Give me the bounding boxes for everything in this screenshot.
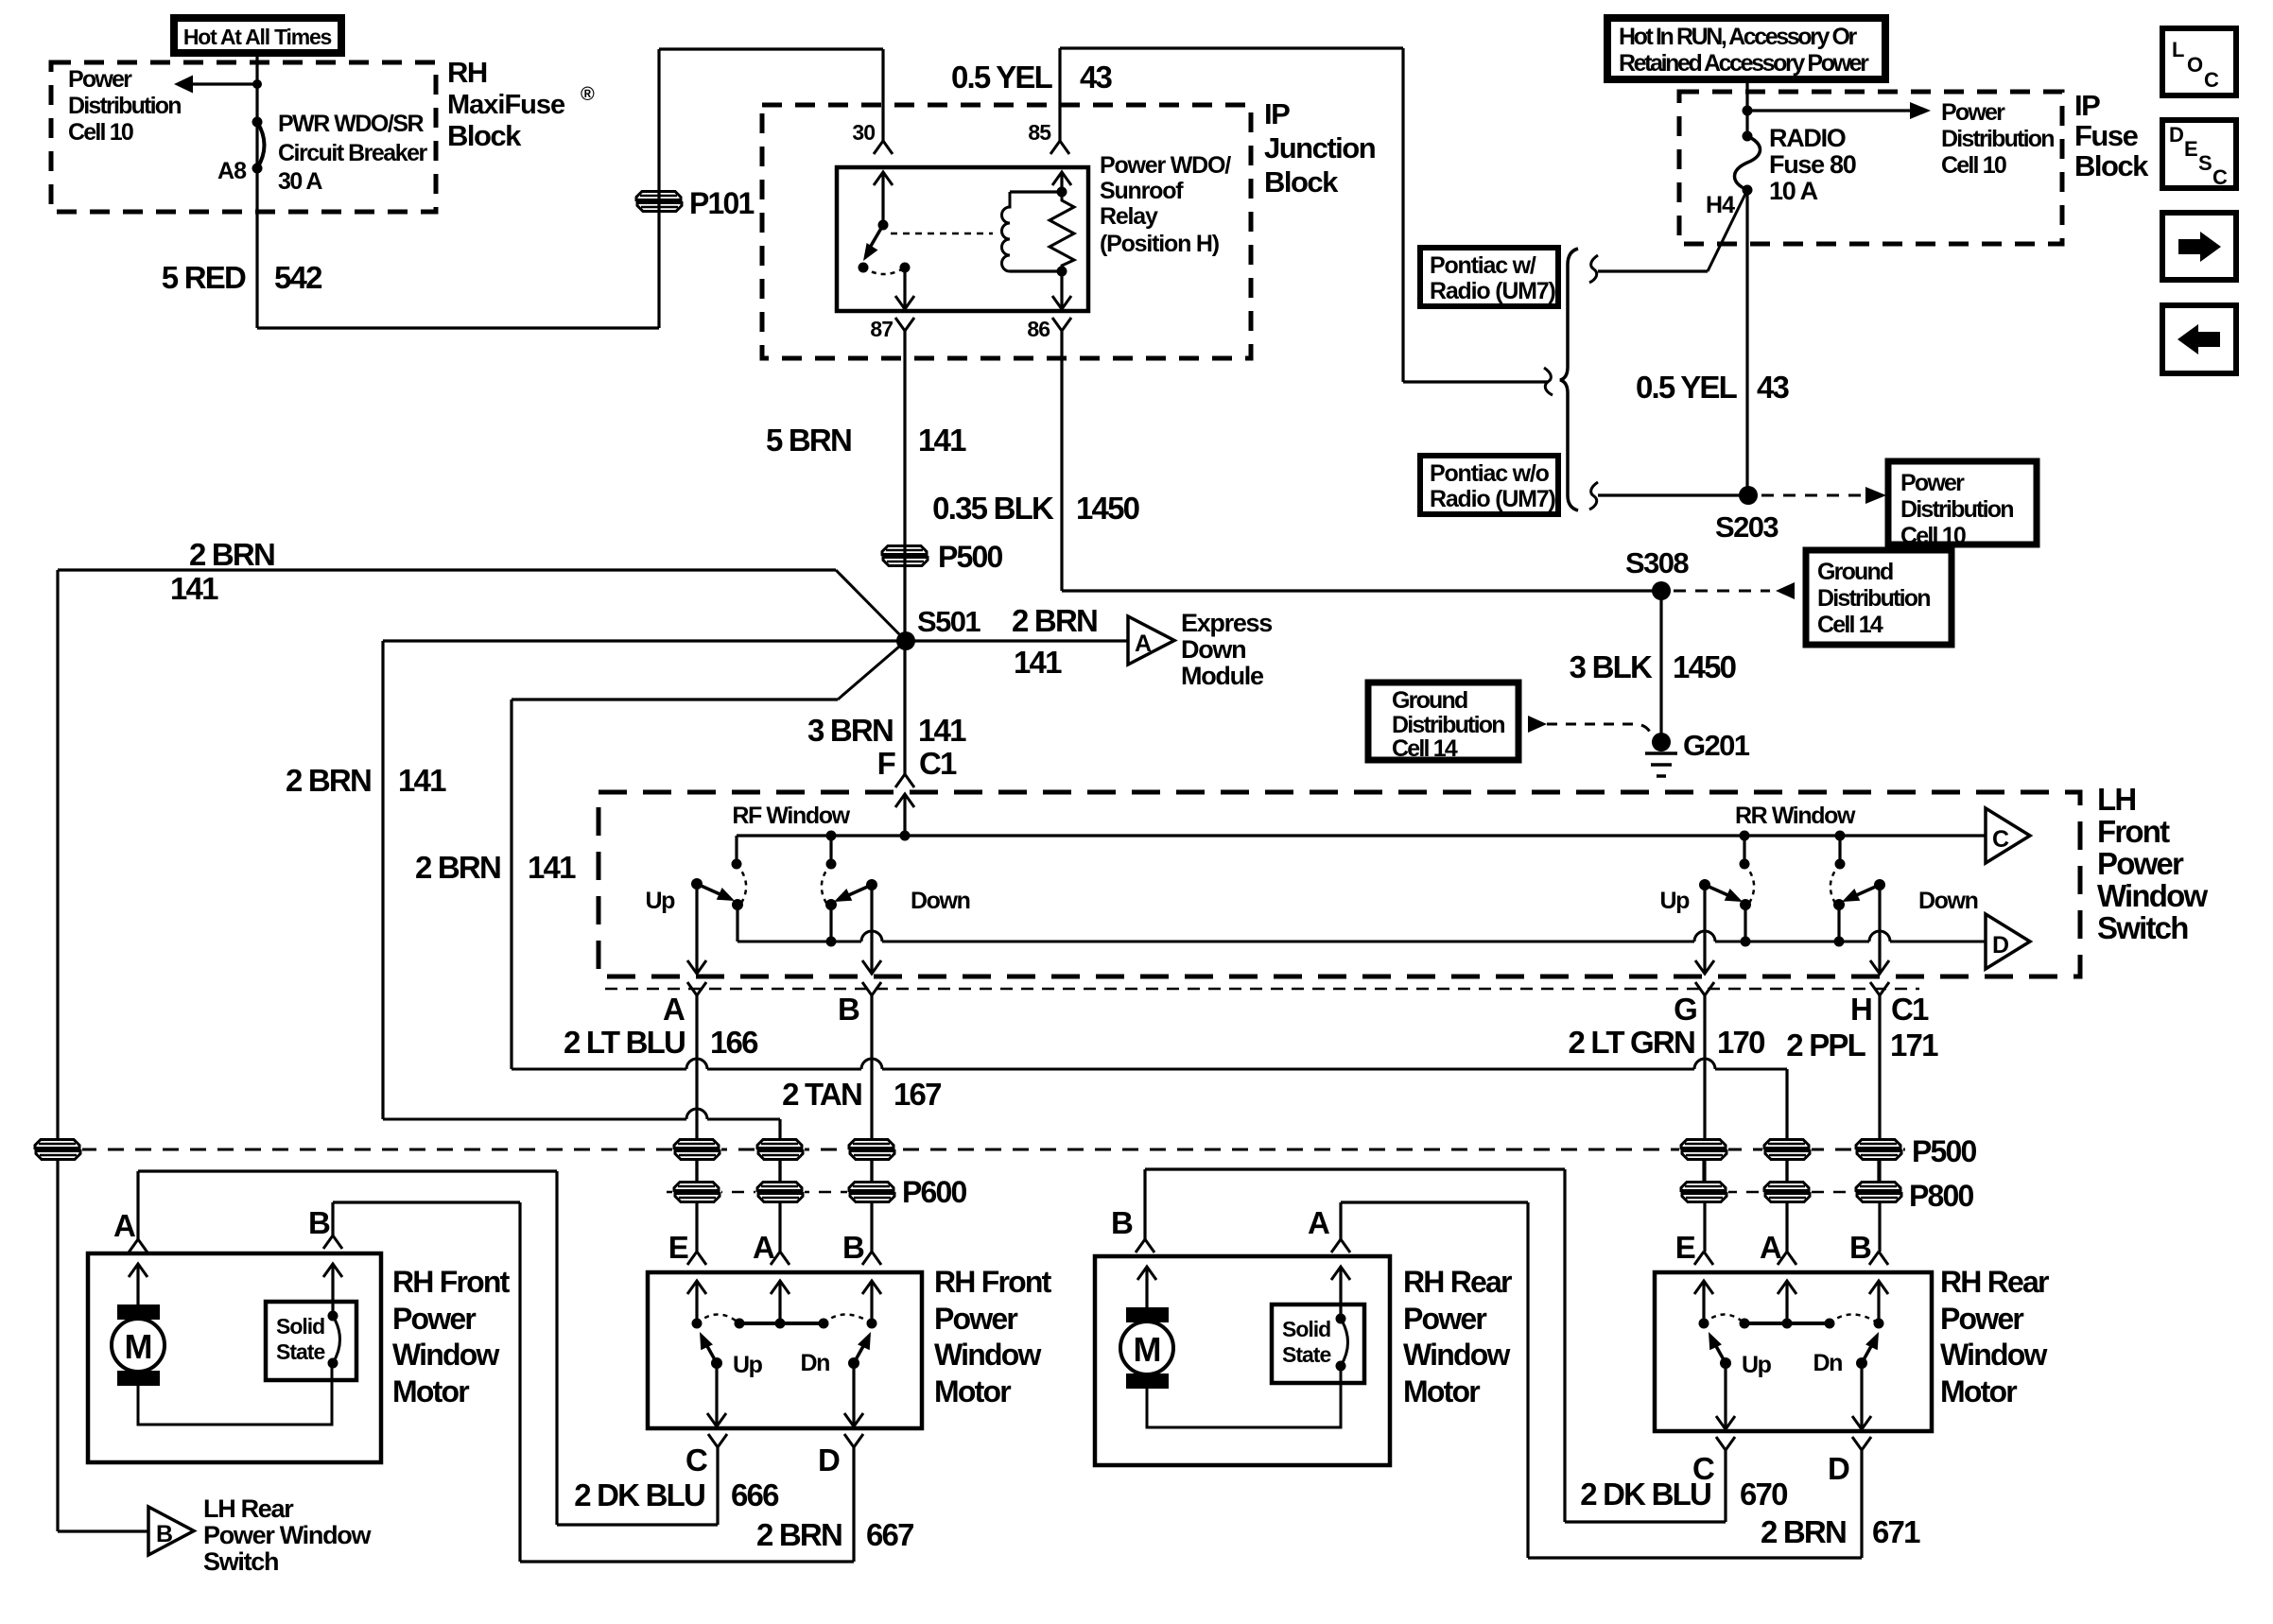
svg-text:Distribution: Distribution bbox=[1900, 496, 2013, 523]
svg-text:10 A: 10 A bbox=[1769, 177, 1818, 205]
svg-text:P600: P600 bbox=[902, 1175, 967, 1209]
svg-text:Distribution: Distribution bbox=[68, 93, 181, 119]
svg-text:170: 170 bbox=[1717, 1025, 1764, 1060]
svg-text:Window: Window bbox=[934, 1338, 1041, 1372]
svg-text:A: A bbox=[1135, 631, 1152, 657]
svg-text:RH Rear: RH Rear bbox=[1403, 1265, 1512, 1299]
svg-text:1450: 1450 bbox=[1076, 491, 1139, 526]
svg-text:D: D bbox=[1992, 932, 2008, 959]
svg-text:E: E bbox=[2184, 137, 2198, 161]
svg-text:M: M bbox=[125, 1327, 152, 1366]
svg-text:2 PPL: 2 PPL bbox=[1786, 1028, 1865, 1063]
svg-text:S: S bbox=[2198, 151, 2212, 175]
svg-text:Down: Down bbox=[911, 888, 970, 914]
svg-text:Block: Block bbox=[1264, 165, 1339, 199]
svg-text:Junction: Junction bbox=[1264, 131, 1376, 164]
svg-text:P500: P500 bbox=[1912, 1134, 1977, 1168]
svg-text:G201: G201 bbox=[1683, 729, 1750, 762]
svg-text:Module: Module bbox=[1181, 662, 1264, 690]
svg-text:86: 86 bbox=[1027, 317, 1050, 341]
svg-text:Down: Down bbox=[1181, 635, 1245, 664]
svg-text:Cell 14: Cell 14 bbox=[1817, 612, 1883, 638]
svg-text:Power: Power bbox=[934, 1302, 1017, 1336]
svg-text:State: State bbox=[1282, 1342, 1330, 1367]
svg-text:Power Window: Power Window bbox=[203, 1521, 372, 1549]
svg-text:Solid: Solid bbox=[1282, 1317, 1330, 1341]
svg-text:0.35 BLK: 0.35 BLK bbox=[932, 491, 1054, 526]
svg-text:3 BLK: 3 BLK bbox=[1570, 649, 1653, 684]
svg-text:Pontiac w/o: Pontiac w/o bbox=[1430, 460, 1550, 487]
svg-text:Express: Express bbox=[1181, 609, 1272, 637]
svg-text:B: B bbox=[1111, 1205, 1133, 1240]
svg-text:Switch: Switch bbox=[2097, 910, 2188, 945]
svg-text:2 BRN: 2 BRN bbox=[286, 763, 371, 798]
svg-text:30: 30 bbox=[852, 120, 875, 145]
svg-text:30 A: 30 A bbox=[278, 168, 322, 195]
svg-text:Pontiac w/: Pontiac w/ bbox=[1430, 252, 1536, 279]
svg-text:C: C bbox=[2204, 68, 2219, 92]
svg-text:A: A bbox=[663, 992, 685, 1027]
svg-text:Power: Power bbox=[68, 66, 132, 93]
svg-text:C1: C1 bbox=[919, 746, 957, 781]
svg-text:Block: Block bbox=[2074, 149, 2149, 182]
svg-text:Distribution: Distribution bbox=[1392, 712, 1504, 738]
svg-text:141: 141 bbox=[398, 763, 446, 798]
svg-text:IP: IP bbox=[2074, 89, 2100, 122]
svg-text:C1: C1 bbox=[1891, 992, 1929, 1027]
svg-text:LH Rear: LH Rear bbox=[203, 1494, 294, 1523]
svg-text:RH Front: RH Front bbox=[934, 1265, 1052, 1299]
svg-text:141: 141 bbox=[918, 423, 966, 458]
svg-text:B: B bbox=[1849, 1230, 1871, 1265]
svg-text:Cell 10: Cell 10 bbox=[1900, 523, 1966, 549]
svg-text:Radio (UM7): Radio (UM7) bbox=[1430, 278, 1556, 304]
svg-text:S501: S501 bbox=[917, 605, 980, 638]
svg-text:2 TAN: 2 TAN bbox=[782, 1077, 861, 1112]
svg-text:H: H bbox=[1850, 992, 1871, 1027]
svg-text:Front: Front bbox=[2097, 814, 2170, 849]
svg-text:State: State bbox=[276, 1339, 324, 1364]
svg-text:2 BRN: 2 BRN bbox=[756, 1517, 842, 1552]
svg-text:E: E bbox=[1675, 1230, 1695, 1265]
svg-text:A8: A8 bbox=[217, 158, 247, 184]
svg-text:Hot In RUN, Accessory Or: Hot In RUN, Accessory Or bbox=[1619, 24, 1858, 50]
svg-text:Retained Accessory Power: Retained Accessory Power bbox=[1619, 50, 1869, 77]
svg-text:S308: S308 bbox=[1625, 546, 1689, 579]
svg-text:L: L bbox=[2172, 38, 2184, 61]
svg-text:Cell 14: Cell 14 bbox=[1392, 735, 1458, 762]
svg-text:141: 141 bbox=[170, 571, 218, 606]
svg-text:670: 670 bbox=[1740, 1477, 1787, 1512]
svg-text:Hot At All Times: Hot At All Times bbox=[183, 25, 332, 49]
svg-text:85: 85 bbox=[1028, 120, 1051, 145]
svg-text:Cell 10: Cell 10 bbox=[1941, 152, 2006, 179]
svg-text:Sunroof: Sunroof bbox=[1100, 178, 1184, 204]
svg-text:MaxiFuse: MaxiFuse bbox=[447, 90, 565, 120]
svg-text:D: D bbox=[1828, 1451, 1849, 1486]
svg-text:(Position H): (Position H) bbox=[1100, 231, 1220, 257]
svg-text:171: 171 bbox=[1890, 1028, 1938, 1063]
svg-text:Radio (UM7): Radio (UM7) bbox=[1430, 486, 1556, 512]
svg-text:Window: Window bbox=[1940, 1338, 2047, 1372]
svg-text:B: B bbox=[156, 1521, 172, 1547]
svg-text:A: A bbox=[113, 1208, 135, 1243]
svg-text:Power: Power bbox=[1941, 99, 2005, 126]
svg-text:Fuse 80: Fuse 80 bbox=[1769, 150, 1856, 179]
svg-text:Motor: Motor bbox=[934, 1374, 1011, 1408]
svg-text:Power: Power bbox=[1940, 1302, 2023, 1336]
svg-text:5 RED: 5 RED bbox=[162, 260, 246, 295]
svg-text:O: O bbox=[2187, 53, 2203, 77]
svg-text:Power WDO/: Power WDO/ bbox=[1100, 152, 1231, 179]
svg-text:Up: Up bbox=[645, 888, 675, 914]
svg-text:167: 167 bbox=[894, 1077, 941, 1112]
svg-text:Ground: Ground bbox=[1392, 687, 1467, 714]
svg-text:B: B bbox=[842, 1230, 864, 1265]
svg-text:A: A bbox=[1308, 1205, 1329, 1240]
svg-text:RH Rear: RH Rear bbox=[1940, 1265, 2049, 1299]
svg-text:Up: Up bbox=[1659, 888, 1690, 914]
svg-text:Circuit Breaker: Circuit Breaker bbox=[278, 140, 428, 166]
svg-text:Power: Power bbox=[1403, 1302, 1486, 1336]
svg-text:C: C bbox=[685, 1443, 707, 1477]
svg-text:Distribution: Distribution bbox=[1941, 126, 2054, 152]
svg-text:2 BRN: 2 BRN bbox=[1012, 603, 1097, 638]
svg-text:LH: LH bbox=[2097, 782, 2135, 817]
svg-text:IP: IP bbox=[1264, 97, 1290, 130]
svg-text:2 BRN: 2 BRN bbox=[415, 850, 500, 885]
svg-text:2 DK BLU: 2 DK BLU bbox=[1580, 1477, 1710, 1512]
svg-text:Up: Up bbox=[1742, 1352, 1772, 1378]
svg-text:0.5 YEL: 0.5 YEL bbox=[951, 60, 1053, 95]
svg-text:A: A bbox=[1760, 1230, 1781, 1265]
svg-text:Solid: Solid bbox=[276, 1314, 324, 1339]
svg-text:Window: Window bbox=[2097, 878, 2208, 913]
svg-text:2 BRN: 2 BRN bbox=[189, 537, 274, 572]
svg-text:Window: Window bbox=[1403, 1338, 1510, 1372]
svg-text:Up: Up bbox=[733, 1352, 763, 1378]
svg-text:F: F bbox=[877, 746, 895, 781]
svg-text:Motor: Motor bbox=[392, 1374, 469, 1408]
svg-text:Dn: Dn bbox=[1813, 1350, 1842, 1376]
svg-text:Ground: Ground bbox=[1817, 559, 1893, 585]
svg-text:Window: Window bbox=[392, 1338, 499, 1372]
svg-text:2 DK BLU: 2 DK BLU bbox=[574, 1477, 704, 1512]
svg-text:Motor: Motor bbox=[1403, 1374, 1480, 1408]
svg-text:2 LT BLU: 2 LT BLU bbox=[564, 1025, 685, 1060]
svg-text:0.5 YEL: 0.5 YEL bbox=[1636, 370, 1738, 405]
svg-text:RF Window: RF Window bbox=[732, 803, 850, 829]
svg-text:RR Window: RR Window bbox=[1735, 803, 1856, 829]
svg-text:H4: H4 bbox=[1706, 192, 1735, 218]
svg-text:C: C bbox=[1992, 826, 2009, 853]
svg-text:43: 43 bbox=[1080, 60, 1113, 95]
svg-text:666: 666 bbox=[731, 1477, 779, 1512]
svg-text:87: 87 bbox=[870, 317, 893, 341]
svg-text:S203: S203 bbox=[1715, 510, 1778, 544]
svg-text:5 BRN: 5 BRN bbox=[766, 423, 851, 458]
svg-text:Distribution: Distribution bbox=[1817, 585, 1930, 612]
svg-text:RH: RH bbox=[447, 56, 487, 89]
svg-text:Switch: Switch bbox=[203, 1547, 278, 1576]
svg-text:1450: 1450 bbox=[1673, 649, 1736, 684]
svg-text:166: 166 bbox=[710, 1025, 758, 1060]
svg-text:Power: Power bbox=[2097, 846, 2184, 881]
svg-text:141: 141 bbox=[528, 850, 576, 885]
svg-text:M: M bbox=[1134, 1330, 1161, 1369]
svg-text:C: C bbox=[2212, 165, 2228, 189]
svg-text:P800: P800 bbox=[1909, 1179, 1974, 1213]
svg-text:141: 141 bbox=[918, 713, 966, 748]
svg-text:2 LT GRN: 2 LT GRN bbox=[1569, 1025, 1695, 1060]
svg-text:2 BRN: 2 BRN bbox=[1761, 1514, 1846, 1549]
svg-text:B: B bbox=[308, 1205, 330, 1240]
svg-text:®: ® bbox=[581, 84, 595, 105]
svg-text:P101: P101 bbox=[689, 186, 755, 220]
svg-text:P500: P500 bbox=[938, 540, 1003, 574]
svg-text:PWR WDO/SR: PWR WDO/SR bbox=[278, 111, 424, 137]
svg-text:542: 542 bbox=[274, 260, 322, 295]
svg-text:B: B bbox=[838, 992, 859, 1027]
svg-text:Block: Block bbox=[447, 119, 522, 152]
svg-text:43: 43 bbox=[1757, 370, 1790, 405]
svg-text:G: G bbox=[1674, 992, 1696, 1027]
svg-text:141: 141 bbox=[1014, 645, 1062, 680]
svg-text:671: 671 bbox=[1872, 1514, 1920, 1549]
svg-text:667: 667 bbox=[866, 1517, 913, 1552]
svg-text:Fuse: Fuse bbox=[2074, 119, 2139, 152]
svg-text:RH Front: RH Front bbox=[392, 1265, 511, 1299]
svg-text:Motor: Motor bbox=[1940, 1374, 2017, 1408]
svg-text:Down: Down bbox=[1918, 888, 1978, 914]
svg-text:E: E bbox=[668, 1230, 688, 1265]
svg-text:3 BRN: 3 BRN bbox=[807, 713, 893, 748]
svg-text:Power: Power bbox=[1900, 470, 1965, 496]
svg-text:A: A bbox=[753, 1230, 774, 1265]
svg-text:Dn: Dn bbox=[800, 1350, 829, 1376]
svg-text:Cell 10: Cell 10 bbox=[68, 119, 133, 146]
svg-text:Power: Power bbox=[392, 1302, 476, 1336]
svg-text:RADIO: RADIO bbox=[1769, 124, 1846, 152]
svg-text:D: D bbox=[818, 1443, 840, 1477]
svg-text:D: D bbox=[2169, 123, 2184, 147]
svg-text:Relay: Relay bbox=[1100, 203, 1158, 230]
